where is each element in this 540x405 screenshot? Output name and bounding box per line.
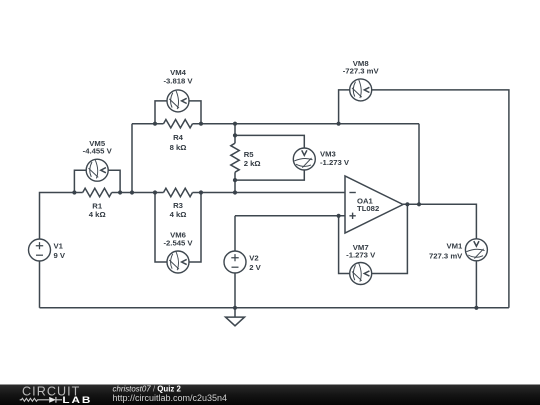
svg-text:4 kΩ: 4 kΩ bbox=[89, 210, 106, 219]
svg-text:TL082: TL082 bbox=[357, 204, 379, 213]
svg-text:2 kΩ: 2 kΩ bbox=[244, 159, 261, 168]
svg-text:2 V: 2 V bbox=[249, 263, 261, 272]
svg-text:-1.273 V: -1.273 V bbox=[320, 158, 350, 167]
svg-text:VM3: VM3 bbox=[320, 149, 336, 158]
svg-text:8 kΩ: 8 kΩ bbox=[170, 143, 187, 152]
svg-text:V2: V2 bbox=[249, 253, 258, 262]
svg-text:-1.273 V: -1.273 V bbox=[346, 251, 376, 260]
svg-text:LAB: LAB bbox=[62, 395, 92, 405]
svg-text:4 kΩ: 4 kΩ bbox=[170, 210, 187, 219]
svg-text:VM1: VM1 bbox=[446, 242, 463, 251]
svg-text:-3.818 V: -3.818 V bbox=[163, 76, 193, 85]
svg-text:R4: R4 bbox=[173, 133, 184, 142]
svg-text:-4.455 V: -4.455 V bbox=[83, 146, 113, 155]
svg-text:-2.545 V: -2.545 V bbox=[163, 239, 193, 248]
svg-text:9 V: 9 V bbox=[54, 251, 66, 260]
svg-text:R1: R1 bbox=[92, 201, 103, 210]
svg-text:R3: R3 bbox=[173, 201, 183, 210]
svg-text:V1: V1 bbox=[54, 242, 64, 251]
svg-text:-727.3 mV: -727.3 mV bbox=[343, 66, 380, 75]
svg-text:http://circuitlab.com/c2u35n4: http://circuitlab.com/c2u35n4 bbox=[113, 393, 228, 403]
svg-text:R5: R5 bbox=[244, 150, 255, 159]
svg-text:727.3 mV: 727.3 mV bbox=[429, 252, 463, 261]
